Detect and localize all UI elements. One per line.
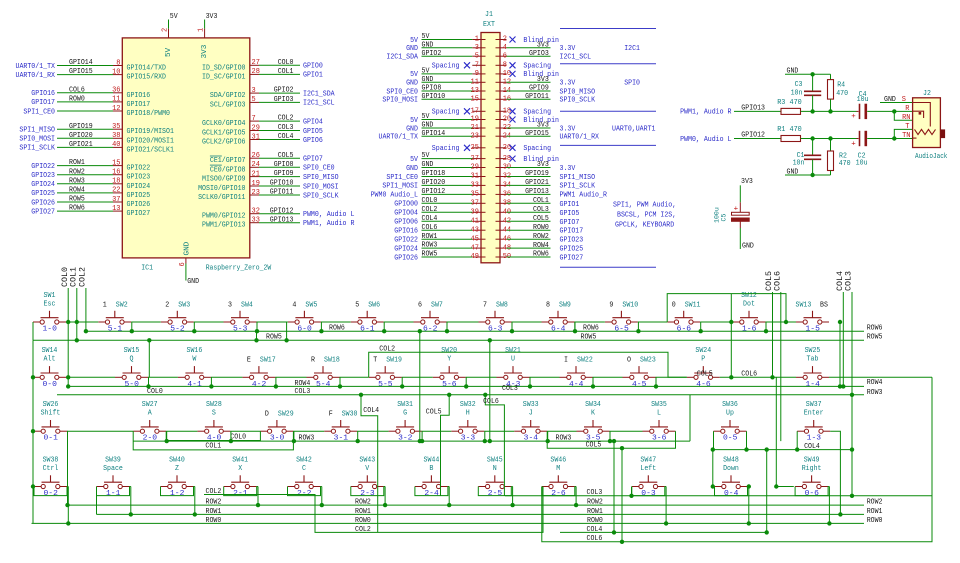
svg-text:J1: J1	[485, 11, 493, 19]
svg-text:R: R	[311, 357, 315, 365]
wire	[466, 376, 497, 378]
svg-text:Q: Q	[130, 356, 134, 364]
svg-text:SW26: SW26	[43, 401, 59, 409]
svg-text:GPIO6: GPIO6	[303, 137, 323, 145]
svg-text:4-2: 4-2	[252, 381, 266, 389]
audio jack J2 AudioJack body	[913, 98, 941, 148]
junction	[774, 484, 778, 488]
IC IC1 Raspberry_Zero_2W body	[122, 38, 250, 258]
svg-text:SW24: SW24	[695, 347, 711, 355]
wire	[148, 376, 178, 378]
IC1 pin 12 (GPIO18/PWM0)	[23, 105, 170, 118]
svg-text:5-6: 5-6	[442, 381, 457, 389]
svg-text:35: 35	[112, 123, 121, 131]
wire ROW5 bus	[33, 339, 864, 341]
IC1 pin 19 (MOSI0/GPIO10)	[198, 180, 339, 193]
switch SW34 (K) code 3-5	[577, 401, 610, 443]
J1 pin 11	[406, 76, 485, 88]
junction	[292, 439, 296, 443]
svg-text:2-5: 2-5	[488, 490, 503, 498]
svg-text:GPIO8: GPIO8	[274, 161, 294, 169]
svg-text:24: 24	[252, 161, 261, 169]
svg-text:2-4: 2-4	[424, 490, 439, 498]
svg-text:T: T	[905, 123, 910, 131]
wire	[161, 487, 194, 496]
junction	[744, 447, 748, 451]
svg-text:23: 23	[252, 189, 261, 197]
svg-text:SW28: SW28	[206, 401, 222, 409]
svg-text:GPIO17: GPIO17	[127, 101, 151, 109]
svg-text:21: 21	[252, 170, 261, 178]
svg-text:SW3: SW3	[178, 301, 190, 309]
IC1 pin 2 (5V)	[168, 29, 170, 38]
svg-text:COL6: COL6	[422, 224, 438, 232]
svg-text:C5: C5	[721, 214, 728, 222]
switch SW29 (SW29) code 3-0	[260, 411, 293, 443]
junction	[359, 393, 363, 397]
J1 pin 22	[496, 122, 551, 133]
svg-text:0-6: 0-6	[805, 490, 820, 498]
svg-text:Spacing: Spacing	[523, 109, 551, 117]
J1 pin 38	[496, 197, 551, 208]
wire ROW0 bus	[32, 522, 865, 524]
wire	[275, 376, 306, 378]
IC1 pin 11 (GPIO17)	[31, 96, 150, 109]
J2 sleeve tab	[940, 129, 945, 138]
svg-text:SW17: SW17	[260, 357, 276, 365]
junction	[66, 375, 70, 379]
junction	[729, 320, 733, 324]
svg-text:GPIO25: GPIO25	[560, 246, 584, 254]
svg-text:7: 7	[475, 62, 479, 70]
junction	[612, 439, 616, 443]
svg-text:GPIO25: GPIO25	[127, 192, 151, 200]
switch SW14 (Alt) code 0-0	[33, 347, 66, 389]
svg-text:SPI0_MOSI: SPI0_MOSI	[382, 97, 418, 105]
svg-text:SW27: SW27	[142, 401, 158, 409]
junction	[31, 375, 35, 379]
svg-text:3.3V: 3.3V	[560, 125, 576, 133]
IC1 pin 5 (SCL/GPIO3)	[210, 96, 335, 109]
junction	[147, 338, 151, 342]
svg-text:U: U	[511, 356, 515, 364]
svg-text:UART0/1_RX: UART0/1_RX	[16, 72, 56, 80]
wire	[575, 487, 577, 506]
svg-text:M: M	[556, 465, 560, 473]
capacitor C2 10u (polarized)	[857, 138, 859, 140]
svg-text:ROW6: ROW6	[69, 205, 85, 213]
svg-text:SW21: SW21	[505, 347, 521, 355]
svg-text:3: 3	[475, 44, 480, 52]
wire	[655, 377, 657, 386]
svg-text:5-2: 5-2	[170, 326, 184, 334]
svg-text:38: 38	[112, 132, 120, 140]
svg-text:GPIO10: GPIO10	[422, 93, 446, 101]
J1 pin 6	[496, 50, 551, 61]
IC1 pin 40 (GPIO21/SCLK1)	[19, 141, 174, 154]
wire ROW3 riser	[689, 395, 691, 441]
J1 pin 27	[410, 152, 485, 164]
IC1 pin 3 (SDA/GPIO2)	[210, 87, 335, 100]
svg-text:COL2: COL2	[78, 267, 88, 287]
wire	[402, 376, 433, 378]
svg-text:ROW1: ROW1	[206, 508, 222, 516]
svg-text:5: 5	[355, 301, 359, 309]
junction	[418, 439, 422, 443]
svg-text:3.3V: 3.3V	[560, 45, 576, 53]
junction	[729, 375, 733, 379]
IC1 pin 7 (GCLK0/GPIO4)	[202, 115, 323, 128]
wire COL5 drop	[441, 395, 450, 496]
svg-text:+: +	[851, 140, 856, 148]
svg-text:COL2: COL2	[422, 206, 438, 214]
switch SW46 (M) code 2-6	[542, 456, 575, 498]
svg-text:SW48: SW48	[723, 456, 739, 464]
svg-text:8: 8	[546, 301, 550, 309]
svg-text:0-5: 0-5	[723, 435, 738, 443]
svg-text:ROW0: ROW0	[587, 517, 603, 525]
switch SW10 (SW10) code 6-5	[605, 301, 639, 333]
svg-text:GPIO20/MOSI1: GPIO20/MOSI1	[127, 137, 175, 145]
wire	[665, 486, 666, 488]
svg-text:4-5: 4-5	[632, 381, 647, 389]
svg-text:ROW6: ROW6	[867, 325, 883, 333]
IC1 pin 37 (GPIO26)	[31, 196, 150, 209]
svg-text:COL3: COL3	[295, 388, 311, 396]
svg-text:26: 26	[252, 152, 261, 160]
svg-text:31: 31	[252, 133, 261, 141]
svg-text:0-3: 0-3	[641, 490, 656, 498]
wire	[700, 322, 702, 331]
svg-text:D: D	[265, 411, 269, 419]
wire	[351, 487, 384, 496]
junction	[84, 329, 88, 333]
svg-text:ROW2: ROW2	[867, 499, 883, 507]
svg-text:8: 8	[116, 59, 120, 67]
svg-text:C: C	[302, 465, 306, 473]
svg-text:10: 10	[112, 68, 121, 76]
svg-text:4-4: 4-4	[569, 381, 584, 389]
svg-text:F: F	[329, 411, 333, 419]
J1 pin 28	[496, 155, 560, 164]
wire	[224, 487, 257, 496]
svg-text:GPIO27: GPIO27	[31, 208, 55, 216]
svg-text:GPIO24: GPIO24	[127, 183, 151, 191]
svg-text:SW37: SW37	[806, 401, 822, 409]
svg-text:GND: GND	[742, 242, 754, 250]
svg-text:3V3: 3V3	[537, 76, 549, 84]
junction	[765, 447, 769, 451]
wire	[720, 376, 796, 378]
svg-text:SW47: SW47	[640, 456, 656, 464]
svg-text:6-5: 6-5	[614, 326, 629, 334]
svg-text:ROW0: ROW0	[533, 224, 549, 232]
J1 pin 9	[410, 68, 485, 80]
svg-text:0-4: 0-4	[724, 490, 739, 498]
svg-text:COL2: COL2	[355, 526, 371, 534]
J1 pin 37	[394, 197, 485, 209]
switch SW23 (SW23) code 4-5	[623, 357, 657, 389]
svg-text:COL6: COL6	[772, 271, 782, 291]
wire	[401, 377, 403, 386]
svg-text:UART0,UART1: UART0,UART1	[612, 125, 656, 133]
junction	[620, 540, 624, 544]
wire	[632, 487, 665, 496]
wire	[275, 377, 277, 386]
wire	[230, 430, 260, 432]
J1 pin 34	[496, 179, 551, 190]
svg-text:ROW5: ROW5	[581, 334, 597, 342]
J1 pin 7	[432, 62, 486, 71]
IC1 pin 33 (PWM1/GPIO13)	[202, 216, 355, 229]
switch SW8 (SW8) code 6-3	[479, 301, 512, 333]
J1 pin 32	[496, 170, 551, 181]
wire	[667, 294, 786, 322]
svg-text:ROW3: ROW3	[867, 389, 883, 397]
junction	[574, 503, 578, 507]
svg-text:36: 36	[112, 87, 121, 95]
junction	[711, 447, 715, 451]
wire	[575, 321, 605, 323]
J1 pin 41	[394, 215, 485, 227]
junction	[483, 439, 487, 443]
svg-text:Spacing: Spacing	[523, 145, 551, 153]
svg-text:GPIO15: GPIO15	[525, 130, 549, 138]
wire RN stub	[894, 111, 912, 120]
svg-text:GPIO5: GPIO5	[303, 128, 323, 136]
svg-text:GPIO15: GPIO15	[69, 68, 93, 76]
junction	[850, 447, 854, 451]
svg-text:ROW0: ROW0	[69, 96, 85, 104]
junction	[31, 429, 35, 433]
junction	[66, 384, 70, 388]
wire	[511, 322, 513, 331]
switch SW9 (SW9) code 6-4	[542, 301, 575, 333]
J1 pin 3	[406, 41, 485, 53]
junction	[620, 446, 624, 450]
svg-text:9: 9	[609, 301, 613, 309]
wire	[867, 110, 912, 112]
switch SW40 (Z) code 1-2	[161, 456, 194, 498]
J1 pin 10	[496, 70, 560, 79]
wire	[547, 430, 576, 432]
svg-text:11: 11	[112, 96, 121, 104]
svg-text:ROW5: ROW5	[422, 251, 438, 259]
wire	[211, 376, 243, 378]
switch SW7 (SW7) code 6-2	[414, 301, 447, 333]
svg-text:GPIO9: GPIO9	[529, 85, 549, 93]
svg-text:GPIO11: GPIO11	[525, 93, 549, 101]
wire	[384, 486, 385, 488]
svg-text:R: R	[905, 105, 910, 113]
switch SW17 (SW17) code 4-2	[242, 357, 275, 389]
junction	[356, 439, 360, 443]
svg-text:5V: 5V	[170, 13, 178, 21]
wire	[32, 340, 34, 523]
svg-text:GPIO12: GPIO12	[422, 188, 446, 196]
svg-text:SPI1_SCLK: SPI1_SCLK	[19, 145, 55, 153]
switch SW43 (V) code 2-3	[351, 456, 384, 498]
svg-text:SPI0_CE0: SPI0_CE0	[303, 165, 335, 173]
J1 pin 1	[410, 33, 485, 45]
svg-text:Ctrl: Ctrl	[43, 465, 59, 473]
svg-text:GPIO10: GPIO10	[270, 180, 294, 188]
svg-text:0-1: 0-1	[44, 435, 59, 443]
svg-text:SW11: SW11	[685, 301, 701, 309]
svg-text:Alt: Alt	[44, 356, 56, 364]
svg-text:GPIO26: GPIO26	[394, 254, 418, 262]
svg-text:COL6: COL6	[587, 535, 603, 543]
J1 pin 48	[496, 242, 551, 253]
wire	[286, 322, 288, 340]
switch SW13 (BS) code 1-5	[796, 301, 830, 333]
switch SW44 (B) code 2-4	[415, 456, 448, 498]
svg-text:J2: J2	[923, 90, 931, 98]
svg-text:3: 3	[228, 301, 232, 309]
wire	[713, 431, 715, 449]
J1 pin 18	[496, 108, 552, 117]
svg-text:GPIO22: GPIO22	[394, 237, 418, 245]
switch SW37 (Enter) code 1-3	[797, 401, 830, 443]
wire group separator lines (blue)	[560, 28, 656, 30]
wire COL6 bottom bus	[542, 377, 932, 542]
switch SW16 (W) code 4-1	[178, 347, 211, 389]
wire	[32, 376, 34, 378]
wire	[357, 431, 359, 441]
IC1 pin 18 (GPIO24)	[31, 177, 150, 190]
svg-text:GPIO16: GPIO16	[31, 90, 55, 98]
junction	[255, 329, 259, 333]
junction	[146, 384, 150, 388]
svg-text:SPI1, PWM Audio,: SPI1, PWM Audio,	[613, 202, 676, 210]
svg-text:4-6: 4-6	[696, 381, 711, 389]
svg-text:5-4: 5-4	[316, 381, 331, 389]
svg-text:3.3V: 3.3V	[560, 165, 576, 173]
wire	[148, 377, 150, 386]
svg-text:COL6: COL6	[483, 398, 499, 406]
IC1 pin 32 (PWM0/GPIO12)	[202, 207, 355, 220]
wire	[511, 486, 512, 488]
J1 pin 29	[406, 161, 485, 173]
svg-text:GPIO12: GPIO12	[741, 132, 765, 140]
switch SW24 (P) code 4-6	[687, 347, 720, 389]
J1 pin 8	[496, 62, 552, 71]
junction	[320, 503, 324, 507]
svg-text:I2C1_SCL: I2C1_SCL	[303, 100, 335, 108]
wire	[66, 321, 98, 323]
svg-text:GPIO15/RXD: GPIO15/RXD	[127, 74, 167, 82]
svg-text:GPIO24: GPIO24	[394, 245, 418, 253]
svg-text:GPIO13: GPIO13	[741, 105, 765, 113]
J1 pin 15	[382, 93, 485, 105]
wire COL3 bottom bus	[505, 495, 932, 497]
wire	[448, 487, 450, 506]
switch SW27 (A) code 2-0	[133, 401, 166, 443]
svg-text:COL4: COL4	[587, 526, 603, 534]
wire	[194, 486, 195, 488]
junction	[193, 512, 197, 516]
svg-text:3V3: 3V3	[201, 44, 209, 58]
connector J1 EXT body	[481, 33, 500, 263]
svg-text:1-5: 1-5	[806, 326, 821, 334]
svg-text:ROW3: ROW3	[422, 242, 438, 250]
svg-text:470: 470	[839, 160, 851, 168]
wire	[478, 487, 511, 496]
wire	[131, 322, 133, 331]
svg-text:ROW3: ROW3	[299, 435, 315, 443]
svg-text:COL4: COL4	[422, 215, 438, 223]
wire	[739, 228, 741, 249]
svg-text:5V: 5V	[422, 152, 430, 160]
J1 pin 19	[410, 113, 485, 125]
resistor R1 470	[781, 136, 801, 142]
wire	[256, 331, 258, 340]
wire GND	[185, 264, 187, 281]
J1 pin 50	[496, 251, 551, 262]
IC1 pin 23 (SCLK0/GPIO11)	[198, 189, 339, 202]
svg-text:GPIO22: GPIO22	[127, 165, 151, 173]
wire	[867, 138, 912, 140]
svg-text:GPIO21: GPIO21	[525, 179, 549, 187]
wire	[133, 431, 293, 450]
switch SW1 (Esc) code 1-0	[33, 292, 66, 334]
wire	[542, 487, 575, 496]
svg-text:SW16: SW16	[187, 347, 203, 355]
wire T stub	[894, 129, 912, 138]
junction	[65, 503, 69, 507]
svg-text:9: 9	[475, 70, 479, 78]
wire	[801, 110, 857, 112]
wire	[422, 430, 452, 432]
wire	[801, 138, 857, 140]
J1 pin 49	[394, 251, 485, 263]
wire COL6 drop	[485, 395, 504, 496]
IC1 pin 6 (GND)	[185, 258, 187, 264]
svg-text:L: L	[657, 410, 661, 418]
svg-text:Z: Z	[175, 465, 179, 473]
svg-text:5V: 5V	[410, 37, 418, 45]
svg-text:Raspberry_Zero_2W: Raspberry_Zero_2W	[206, 265, 272, 273]
wire	[489, 340, 491, 441]
IC1 pin 16 (GPIO23)	[31, 168, 150, 181]
svg-text:1-4: 1-4	[806, 381, 821, 389]
svg-text:SW7: SW7	[431, 301, 443, 309]
svg-text:R4: R4	[837, 81, 845, 89]
wire	[746, 431, 748, 449]
svg-text:GPIO23: GPIO23	[560, 237, 584, 245]
wire	[339, 377, 341, 386]
wire	[419, 331, 421, 441]
svg-text:22: 22	[112, 187, 120, 195]
svg-text:3V3: 3V3	[537, 42, 549, 50]
junction	[229, 439, 233, 443]
svg-text:SW42: SW42	[296, 456, 312, 464]
switch SW2 (SW2) code 5-1	[98, 301, 131, 333]
svg-text:S: S	[212, 410, 216, 418]
svg-text:2-6: 2-6	[551, 490, 566, 498]
svg-text:GPIO19: GPIO19	[69, 123, 93, 131]
junction	[841, 384, 845, 388]
junction	[382, 329, 386, 333]
J1 pin 46	[496, 233, 551, 244]
svg-text:5V: 5V	[410, 156, 418, 164]
svg-text:GND: GND	[422, 41, 434, 49]
svg-text:5V: 5V	[165, 47, 173, 57]
wire	[593, 376, 623, 378]
wire	[130, 487, 132, 515]
svg-text:ROW6: ROW6	[329, 325, 345, 333]
wire	[288, 487, 321, 496]
